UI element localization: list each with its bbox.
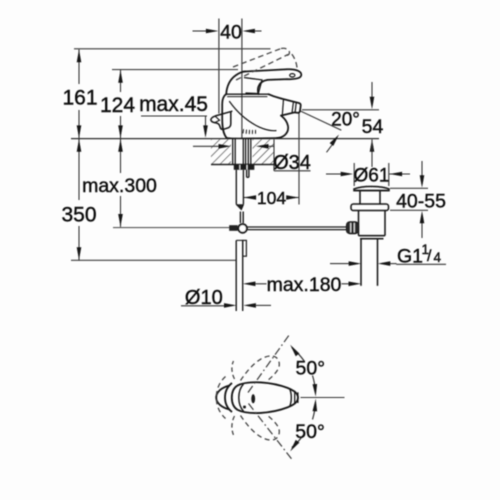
svg-text:G1: G1 — [397, 246, 423, 268]
svg-text:Ø61: Ø61 — [354, 166, 390, 187]
svg-text:Ø34: Ø34 — [273, 152, 311, 174]
svg-text:50°: 50° — [295, 421, 325, 443]
svg-text:max.180: max.180 — [267, 274, 342, 296]
svg-text:40-55: 40-55 — [396, 191, 446, 213]
svg-text:Ø10: Ø10 — [185, 287, 223, 309]
svg-text:/: / — [427, 248, 432, 265]
svg-text:350: 350 — [61, 204, 96, 227]
svg-text:54: 54 — [362, 116, 384, 138]
svg-text:4: 4 — [434, 250, 442, 265]
svg-text:max.300: max.300 — [82, 175, 157, 197]
svg-text:104: 104 — [257, 188, 286, 208]
svg-text:20°: 20° — [331, 110, 360, 131]
svg-text:40: 40 — [220, 22, 242, 44]
svg-text:124: 124 — [100, 94, 135, 117]
svg-text:161: 161 — [62, 87, 97, 110]
svg-text:50°: 50° — [296, 358, 326, 380]
svg-text:max.45: max.45 — [139, 93, 208, 116]
